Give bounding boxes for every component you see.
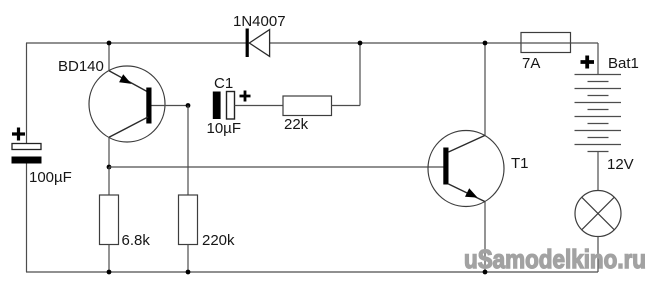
emitter line: [109, 71, 148, 92]
base bar: [146, 88, 151, 124]
wire top rail to battery: [597, 43, 599, 75]
svg-text:220k: 220k: [202, 232, 235, 249]
node junction T1 collector / top rail: [483, 41, 488, 46]
wire 22k to top rail: [332, 43, 361, 106]
wire base lead: [152, 105, 189, 107]
node junction base net: [186, 103, 191, 108]
resistor 220k: [179, 106, 236, 273]
svg-text:Bat1: Bat1: [608, 55, 639, 72]
svg-text:T1: T1: [511, 155, 529, 172]
svg-text:100µF: 100µF: [29, 169, 72, 186]
wire top rail: [26, 42, 598, 44]
wire T1 collector to top rail: [484, 43, 486, 135]
collector line: [109, 117, 148, 137]
node junction 22k / top rail: [358, 41, 363, 46]
svg-text:1N4007: 1N4007: [233, 13, 286, 30]
wire T1 emitter to bottom rail: [484, 202, 486, 272]
resistor 22k: [283, 96, 332, 133]
fuse 7A: [521, 33, 571, 73]
node junction 6.8k / bottom rail: [107, 270, 112, 275]
svg-text:7A: 7A: [522, 55, 540, 72]
svg-text:6.8k: 6.8k: [122, 232, 151, 249]
wire collector drop: [108, 137, 110, 167]
base bar: [443, 148, 448, 185]
svg-text:uSamodelkino.ru: uSamodelkino.ru: [464, 244, 646, 274]
wire left rail: [26, 43, 28, 272]
capacitor C1 10uF: [207, 75, 251, 137]
wire battery to lamp: [597, 152, 599, 191]
emitter arrow (PNP, points to base): [119, 74, 131, 84]
node junction T1 emitter / bottom rail: [483, 270, 488, 275]
node junction top rail / BD140 emitter: [107, 41, 112, 46]
node junction 220k / bottom rail: [186, 270, 191, 275]
lamp 12V: [575, 191, 621, 237]
emitter arrow (NPN, points out): [465, 188, 478, 197]
svg-text:BD140: BD140: [58, 58, 104, 75]
wire T1 base net: [109, 166, 444, 168]
svg-text:12V: 12V: [607, 156, 634, 173]
node junction BD140 collector / 6.8k / T1 base: [107, 165, 112, 170]
collector line: [449, 135, 486, 152]
wire bottom rail: [26, 271, 598, 273]
svg-text:22k: 22k: [284, 116, 309, 133]
transistor BD140 (PNP): [58, 43, 188, 167]
wire C1 to 22k: [235, 105, 284, 107]
wire lamp to bottom rail: [597, 237, 599, 273]
svg-text:10µF: 10µF: [207, 120, 242, 137]
resistor 6.8k: [100, 167, 151, 272]
transistor T1 (NPN): [428, 131, 529, 207]
wire emitter drop from top rail: [108, 43, 110, 71]
diode 1N4007: [233, 13, 286, 57]
svg-text:C1: C1: [214, 75, 233, 92]
capacitor 100uF (electrolytic, left): [12, 128, 72, 187]
battery Bat1: [575, 55, 639, 152]
emitter line: [449, 184, 486, 202]
